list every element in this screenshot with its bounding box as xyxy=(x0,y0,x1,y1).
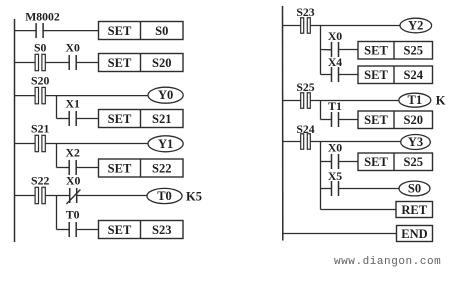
wire xyxy=(15,62,36,64)
box SET S25 (b) xyxy=(358,153,433,171)
contact S21 (STL step) xyxy=(31,123,49,152)
box SET S25 (a) xyxy=(358,42,433,60)
wire xyxy=(57,167,70,169)
svg-text:SET: SET xyxy=(108,56,132,70)
wire (branch down) xyxy=(56,96,58,119)
contact X2 xyxy=(66,147,80,176)
svg-text:K5: K5 xyxy=(186,190,202,204)
left power rail xyxy=(14,19,16,242)
svg-text:S24: S24 xyxy=(404,68,424,82)
svg-text:SET: SET xyxy=(108,223,132,237)
svg-text:S22: S22 xyxy=(152,161,171,175)
svg-text:SET: SET xyxy=(108,112,132,126)
wire xyxy=(76,118,98,120)
box SET S20 (r) xyxy=(358,111,433,129)
svg-text:S0: S0 xyxy=(408,182,421,196)
wire xyxy=(321,119,332,121)
contact S25 (STL step) xyxy=(296,81,314,108)
wire xyxy=(45,195,69,197)
svg-text:X5: X5 xyxy=(328,170,342,183)
svg-text:SET: SET xyxy=(364,68,388,82)
coil T0 xyxy=(147,188,182,203)
svg-text:SET: SET xyxy=(364,44,388,58)
wire xyxy=(45,143,148,145)
contact X0 (NC) xyxy=(66,175,80,205)
svg-text:SET: SET xyxy=(364,113,388,127)
wire xyxy=(283,25,301,27)
contact S22 (STL step) xyxy=(31,175,49,204)
svg-text:X1: X1 xyxy=(66,98,80,111)
box SET S20 xyxy=(99,54,184,72)
coil Y3 xyxy=(401,135,431,150)
svg-text:S22: S22 xyxy=(31,175,49,188)
wire xyxy=(15,95,36,97)
svg-text:S25: S25 xyxy=(404,155,423,169)
wire xyxy=(76,62,98,64)
box SET S22 xyxy=(99,159,184,177)
wire xyxy=(283,141,301,143)
wire xyxy=(321,209,397,211)
contact X4 xyxy=(328,56,342,82)
svg-text:X0: X0 xyxy=(328,30,342,43)
wire xyxy=(43,30,98,32)
svg-text:X0: X0 xyxy=(66,175,80,188)
wire xyxy=(15,30,37,32)
contact S20 (STL step) xyxy=(31,75,49,104)
wire (branch down) xyxy=(56,144,58,168)
contact T1 xyxy=(328,100,342,127)
box END xyxy=(397,226,433,242)
wire xyxy=(283,233,397,235)
wire xyxy=(321,188,332,190)
wire (branch down) xyxy=(320,26,322,75)
contact S23 (STL step) xyxy=(296,6,314,33)
contact S24 (STL step) xyxy=(296,123,314,149)
svg-text:S0: S0 xyxy=(155,24,168,38)
wire xyxy=(76,167,98,169)
right power rail xyxy=(282,6,284,241)
contact X0 xyxy=(66,42,80,71)
wire (branch down) xyxy=(320,101,322,120)
wire xyxy=(15,143,36,145)
contact X0 xyxy=(328,30,342,57)
wire xyxy=(15,195,36,197)
box SET S21 xyxy=(99,110,184,128)
box SET S0 xyxy=(99,22,184,40)
wire xyxy=(338,74,358,76)
coil Y1 xyxy=(148,136,183,152)
wire xyxy=(310,25,400,27)
svg-text:S24: S24 xyxy=(296,123,314,136)
svg-text:K: K xyxy=(436,93,446,107)
coil Y0 xyxy=(148,87,183,103)
wire xyxy=(76,229,98,231)
svg-text:X2: X2 xyxy=(66,147,80,160)
wire xyxy=(57,229,70,231)
contact T0 xyxy=(66,209,80,238)
svg-text:T0: T0 xyxy=(66,209,80,222)
svg-text:RET: RET xyxy=(401,203,427,217)
svg-text:SET: SET xyxy=(364,155,388,169)
svg-text:T1: T1 xyxy=(328,100,342,113)
svg-text:M8002: M8002 xyxy=(25,11,60,24)
wire xyxy=(45,62,69,64)
svg-text:S20: S20 xyxy=(152,56,171,70)
coil T1 xyxy=(399,93,431,107)
wire xyxy=(338,188,399,190)
svg-text:S21: S21 xyxy=(152,112,171,126)
svg-text:T1: T1 xyxy=(408,93,423,107)
contact M8002 xyxy=(25,11,60,38)
svg-text:S23: S23 xyxy=(152,223,171,237)
wire xyxy=(338,119,358,121)
coil Y2 xyxy=(400,18,432,33)
wire xyxy=(283,100,301,102)
svg-text:X0: X0 xyxy=(66,42,80,55)
svg-text:S23: S23 xyxy=(296,6,314,19)
svg-text:S25: S25 xyxy=(404,44,423,58)
svg-text:www.diangon.com: www.diangon.com xyxy=(334,256,441,268)
wire xyxy=(321,161,332,163)
svg-text:S21: S21 xyxy=(31,123,49,136)
svg-text:S25: S25 xyxy=(296,81,314,94)
svg-text:Y3: Y3 xyxy=(408,135,423,149)
contact S0 (STL step) xyxy=(34,42,47,71)
wire xyxy=(321,74,332,76)
wire xyxy=(57,118,70,120)
svg-text:S0: S0 xyxy=(34,42,47,55)
wire xyxy=(310,141,401,143)
wire xyxy=(310,100,399,102)
svg-text:X0: X0 xyxy=(328,142,342,155)
svg-text:T0: T0 xyxy=(157,189,172,203)
wire xyxy=(45,95,148,97)
wire xyxy=(77,195,147,197)
box SET S24 xyxy=(358,66,433,84)
svg-text:Y2: Y2 xyxy=(408,19,423,33)
wire xyxy=(321,49,332,51)
coil S0 xyxy=(399,181,430,196)
contact X0 xyxy=(328,142,342,170)
box RET xyxy=(396,202,433,218)
svg-text:SET: SET xyxy=(108,24,132,38)
wire xyxy=(338,49,358,51)
svg-text:Y1: Y1 xyxy=(158,137,173,151)
svg-text:S20: S20 xyxy=(404,113,423,127)
wire xyxy=(338,161,358,163)
wire (branch down) xyxy=(56,196,58,230)
svg-text:X4: X4 xyxy=(328,56,342,69)
svg-text:Y0: Y0 xyxy=(158,88,173,102)
contact X5 xyxy=(328,170,342,196)
contact X1 xyxy=(66,98,80,127)
svg-text:S20: S20 xyxy=(31,75,49,88)
svg-text:END: END xyxy=(401,227,427,241)
svg-text:SET: SET xyxy=(108,161,132,175)
box SET S23 xyxy=(99,221,184,239)
wire (branch down) xyxy=(320,142,322,210)
